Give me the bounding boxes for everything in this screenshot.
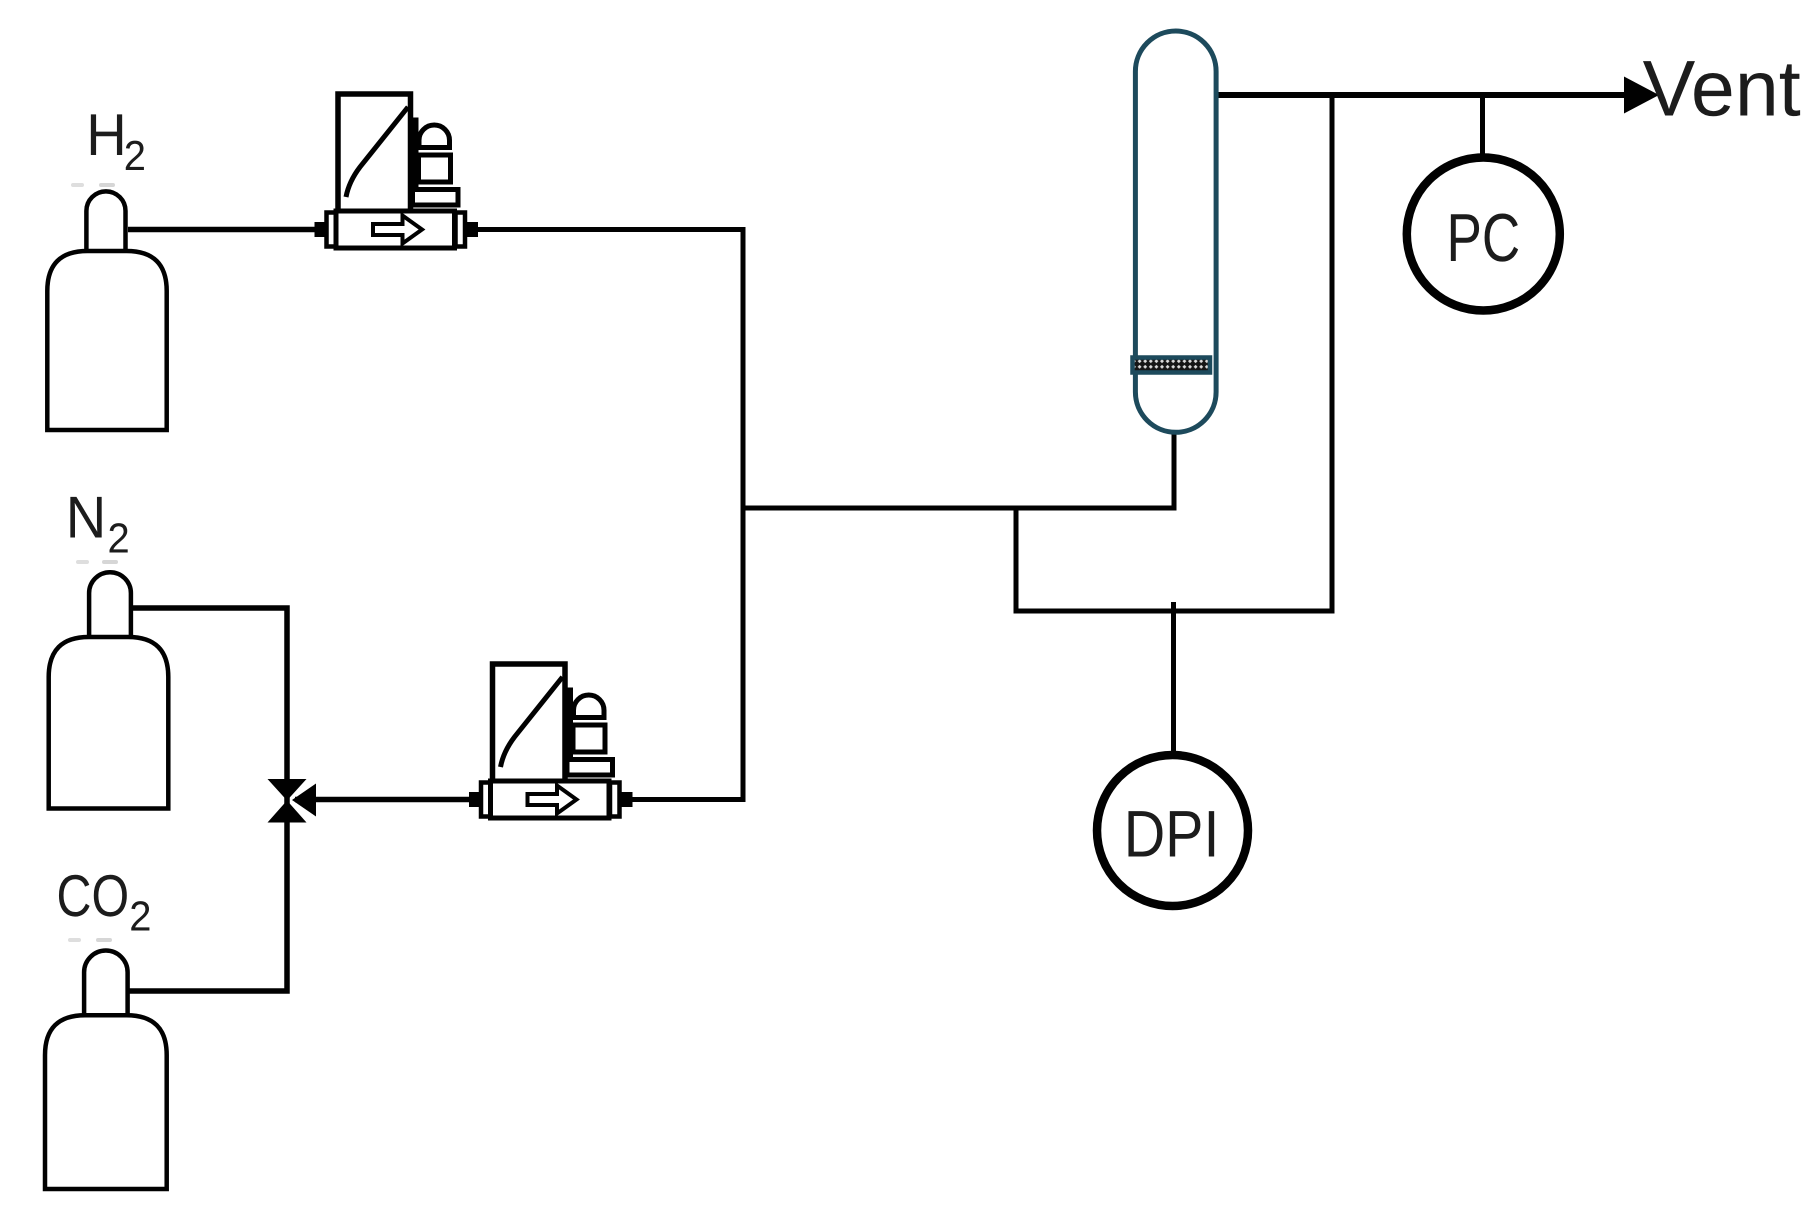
PC controller circle: [1407, 158, 1560, 311]
wire N2 to valve to CO2: [126, 608, 287, 991]
column packing band: [1133, 358, 1211, 373]
svg-text:PC: PC: [1447, 200, 1521, 276]
svg-text:CO: CO: [57, 863, 130, 929]
wire branch to column bottom: [741, 430, 1175, 508]
wire MFC1 out, down main vertical, to MFC2 out: [476, 230, 743, 800]
wire step down and across to vent vertical: [1016, 95, 1332, 611]
faint mark above N2 neck: [76, 560, 89, 564]
wire DPI tap: [1171, 602, 1176, 760]
svg-text:Vent: Vent: [1643, 44, 1801, 133]
H2 cylinder body: [47, 251, 166, 430]
column vessel: [1135, 31, 1216, 432]
svg-text:2: 2: [129, 893, 151, 940]
mass flow controller MFC1 (H2 line): [315, 94, 479, 248]
H2 cylinder neck: [86, 191, 125, 262]
svg-text:DPI: DPI: [1124, 797, 1220, 871]
svg-text:2: 2: [124, 132, 146, 179]
faint mark above H2 neck: [71, 183, 84, 187]
mass flow controller MFC2 (N2/CO2 line): [469, 664, 633, 818]
wire valve to MFC2: [295, 797, 471, 803]
N2 cylinder body: [49, 637, 169, 809]
vent arrowhead: [1624, 77, 1659, 114]
svg-text:N: N: [66, 485, 106, 551]
CO2 cylinder neck: [84, 951, 128, 1026]
svg-text:2: 2: [108, 515, 130, 562]
arrowhead into valve: [292, 784, 316, 817]
wire PC tap: [1480, 95, 1485, 157]
CO2 cylinder body: [45, 1015, 167, 1189]
DPI indicator circle: [1097, 755, 1248, 906]
valve (vertical bowtie): [268, 779, 307, 823]
faint mark above CO2 neck: [68, 938, 81, 942]
wire column outlet to vent: [1213, 92, 1626, 98]
wire H2 cylinder to MFC1: [128, 227, 320, 233]
N2 cylinder neck: [89, 572, 131, 648]
svg-text:H: H: [86, 102, 126, 168]
